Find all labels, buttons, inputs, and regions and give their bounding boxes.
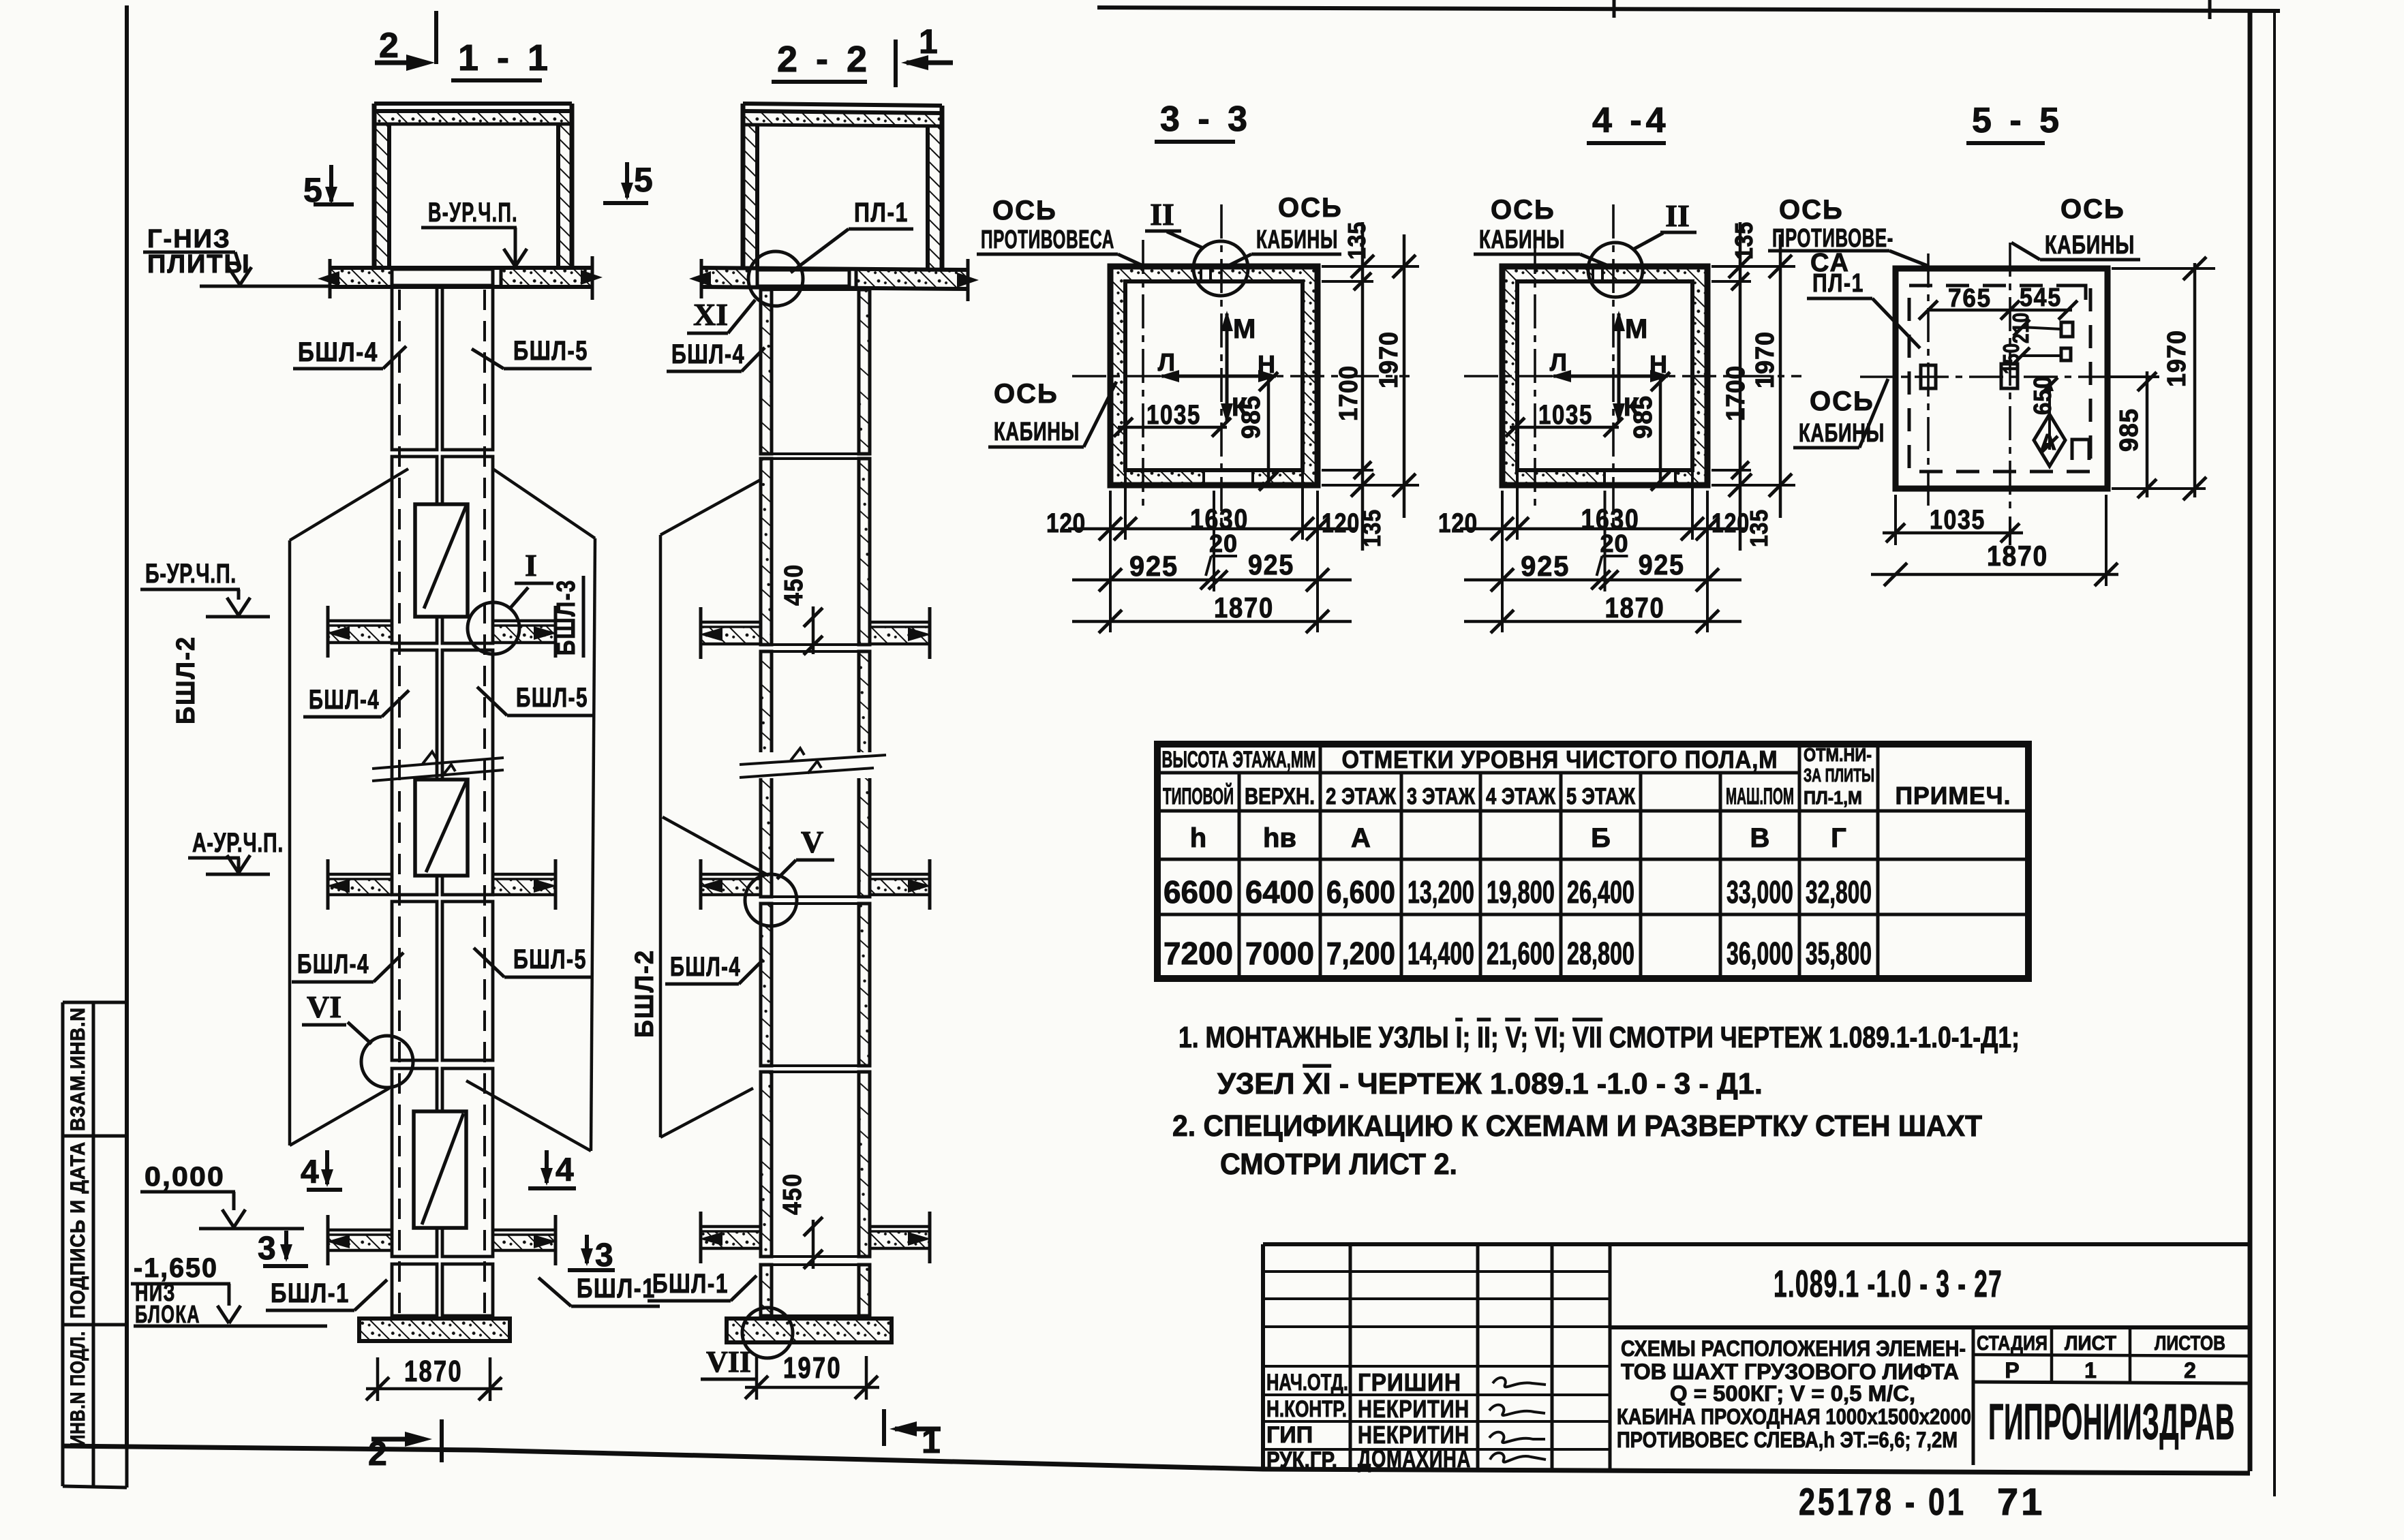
svg-text:985: 985 xyxy=(2115,408,2144,452)
svg-text:ОСЬ: ОСЬ xyxy=(1779,195,1844,225)
plan 5-5 slab outline xyxy=(1896,268,2108,489)
svg-text:БШЛ-2: БШЛ-2 xyxy=(630,949,659,1038)
svg-text:М: М xyxy=(1233,314,1256,344)
svg-text:ОТМ.НИ-: ОТМ.НИ- xyxy=(1804,744,1872,765)
svg-text:1700: 1700 xyxy=(1722,365,1750,421)
title block signatures xyxy=(1493,1378,1546,1387)
section 1-1 cut mark 2 bottom xyxy=(371,1437,424,1442)
svg-text:7,200: 7,200 xyxy=(1326,936,1395,971)
svg-text:V: V xyxy=(801,825,823,859)
svg-text:35,800: 35,800 xyxy=(1806,936,1872,971)
plan 3-3 right dimensions xyxy=(1322,265,1419,268)
section 1-1 floor slab brackets level B xyxy=(328,626,392,643)
node circle VII xyxy=(742,1308,793,1358)
plan 5-5 dashed PL-1 slab xyxy=(1909,286,2090,472)
svg-text:1. МОНТАЖНЫЕ УЗЛЫ I; II; V;: 1. МОНТАЖНЫЕ УЗЛЫ I; II; V; VI; VII СМОТ… xyxy=(1178,1021,2020,1054)
plan 5-5 dim 150 xyxy=(2022,354,2061,357)
svg-text:БЛОКА: БЛОКА xyxy=(135,1300,200,1328)
svg-text:1970: 1970 xyxy=(783,1351,842,1385)
svg-text:7000: 7000 xyxy=(1245,936,1314,971)
svg-text:Н: Н xyxy=(1649,350,1667,378)
svg-text:1970: 1970 xyxy=(1751,331,1780,388)
svg-text:БШЛ-4: БШЛ-4 xyxy=(298,337,378,367)
section 1-1 machine room left wall xyxy=(374,124,389,268)
plan 3-3 bottom dimensions xyxy=(1109,491,1112,632)
title block stage cells xyxy=(1972,1327,1975,1465)
plan 5-5 diamond mark A xyxy=(2034,414,2065,466)
plan 5-5 dim 985 right xyxy=(2108,375,2159,378)
section 2-2 machine room right wall xyxy=(928,126,942,268)
svg-text:ВЫСОТА ЭТАЖА,ММ: ВЫСОТА ЭТАЖА,ММ xyxy=(1162,747,1316,773)
svg-text:Q = 500КГ; V = 0,5 М/С,: Q = 500КГ; V = 0,5 М/С, xyxy=(1670,1381,1915,1406)
dimension 1970 bottom of section 2-2 xyxy=(755,1356,759,1400)
svg-text:5 - 5: 5 - 5 xyxy=(1972,101,2063,140)
sheet frame right border thin outer xyxy=(2273,10,2276,1496)
svg-text:ОТМЕТКИ УРОВНЯ ЧИСТОГО ПОЛА: ОТМЕТКИ УРОВНЯ ЧИСТОГО ПОЛА,М xyxy=(1342,745,1778,773)
section 1-1 development envelope outline xyxy=(290,469,408,540)
svg-text:925: 925 xyxy=(1639,549,1685,581)
svg-text:ЗА ПЛИТЫ: ЗА ПЛИТЫ xyxy=(1804,765,1874,786)
plan 5-5 hole counterweight xyxy=(1921,365,1936,388)
svg-text:ПЛ-1: ПЛ-1 xyxy=(1812,269,1864,298)
svg-text:985: 985 xyxy=(1237,395,1266,439)
svg-text:2: 2 xyxy=(2184,1358,2196,1383)
section 2-2 floor PL-1 panel xyxy=(757,270,849,286)
svg-text:В-УР.Ч.П.: В-УР.Ч.П. xyxy=(428,198,518,228)
svg-text:БШЛ-4: БШЛ-4 xyxy=(671,339,745,369)
svg-text:VII: VII xyxy=(706,1345,751,1379)
svg-text:1: 1 xyxy=(2084,1358,2097,1383)
svg-text:25178 - 01: 25178 - 01 xyxy=(1799,1480,1966,1523)
svg-text:1700: 1700 xyxy=(1335,365,1363,421)
svg-text:120: 120 xyxy=(1711,508,1750,538)
plan 5-5 hole cab xyxy=(2001,364,2018,388)
svg-text:БШЛ-5: БШЛ-5 xyxy=(513,944,587,974)
svg-text:Г: Г xyxy=(1831,823,1846,853)
svg-text:БШЛ-5: БШЛ-5 xyxy=(516,683,588,713)
svg-text:1970: 1970 xyxy=(1375,331,1403,388)
sheet frame bottom border xyxy=(61,1446,2250,1473)
svg-text:71: 71 xyxy=(1997,1480,2045,1523)
plan 3-3 dim 1035 xyxy=(1118,426,1227,429)
svg-text:120: 120 xyxy=(1046,508,1086,538)
svg-text:ЛИСТОВ: ЛИСТОВ xyxy=(2155,1332,2225,1355)
svg-text:3 ЭТАЖ: 3 ЭТАЖ xyxy=(1407,784,1475,810)
section 2-2 machine room left wall xyxy=(743,125,757,268)
section 2-2 floor slab brackets level B xyxy=(701,627,761,644)
svg-text:4 ЭТАЖ: 4 ЭТАЖ xyxy=(1486,784,1555,810)
section 2-2 floor slab brackets level 0 xyxy=(701,1231,761,1248)
svg-text:14,400: 14,400 xyxy=(1408,936,1474,971)
svg-text:КАБИНЫ: КАБИНЫ xyxy=(2045,231,2135,260)
svg-text:БШЛ-5: БШЛ-5 xyxy=(513,336,588,366)
svg-text:2 - 2: 2 - 2 xyxy=(777,39,871,80)
svg-text:ГИП: ГИП xyxy=(1266,1422,1313,1448)
svg-text:1870: 1870 xyxy=(1214,591,1274,623)
svg-text:28,800: 28,800 xyxy=(1567,936,1634,971)
plan 5-5 small hole 1 xyxy=(2061,322,2073,337)
svg-text:НАЧ.ОТД.: НАЧ.ОТД. xyxy=(1266,1370,1348,1396)
svg-text:ПОДПИСЬ И ДАТА: ПОДПИСЬ И ДАТА xyxy=(67,1141,89,1319)
svg-text:СМОТРИ ЛИСТ 2.: СМОТРИ ЛИСТ 2. xyxy=(1220,1148,1457,1181)
section 1-1 shaft left column BShL-4 stack xyxy=(392,286,437,450)
section 1-1 floor slab PL-1 panel xyxy=(392,269,493,286)
svg-text:545: 545 xyxy=(2020,283,2062,312)
svg-text:1870: 1870 xyxy=(404,1355,463,1388)
plan 5-5 corner mark top right xyxy=(2076,286,2086,300)
svg-text:ПРИМЕЧ.: ПРИМЕЧ. xyxy=(1896,782,2011,810)
svg-text:13,200: 13,200 xyxy=(1408,874,1474,910)
svg-text:925: 925 xyxy=(1129,550,1178,582)
title block outline xyxy=(1263,1242,2250,1246)
node circle I xyxy=(468,602,519,654)
section 2-2 shaft walls with joints xyxy=(761,290,772,454)
svg-text:1: 1 xyxy=(919,22,938,61)
svg-text:ТИПОВОЙ: ТИПОВОЙ xyxy=(1163,783,1234,810)
section 1-1 bottom slab xyxy=(359,1319,510,1341)
section 1-1 door opening D3 xyxy=(414,1111,466,1228)
svg-text:1035: 1035 xyxy=(1538,400,1593,430)
svg-text:РУК.ГР.: РУК.ГР. xyxy=(1266,1447,1337,1473)
section 1-1 machine room top slab xyxy=(374,102,572,106)
svg-text:А: А xyxy=(1351,823,1371,853)
svg-text:1870: 1870 xyxy=(1987,540,2048,572)
section 2-2 break lines xyxy=(757,752,877,778)
plan 3-3 counterweight axis xyxy=(1142,240,1144,506)
svg-text:ТОВ ШАХТ ГРУЗОВОГО ЛИФТА: ТОВ ШАХТ ГРУЗОВОГО ЛИФТА xyxy=(1621,1359,1959,1384)
title block row lines left part xyxy=(1263,1270,1610,1273)
svg-text:0,000: 0,000 xyxy=(144,1162,225,1192)
svg-text:1035: 1035 xyxy=(1146,400,1201,430)
svg-text:КАБИНЫ: КАБИНЫ xyxy=(1256,226,1338,254)
section 2-2 cut mark 1 bottom xyxy=(882,1409,886,1446)
svg-text:БШЛ-1: БШЛ-1 xyxy=(271,1278,350,1308)
svg-text:4: 4 xyxy=(301,1154,319,1190)
svg-text:1: 1 xyxy=(922,1422,941,1460)
svg-text:5 ЭТАЖ: 5 ЭТАЖ xyxy=(1566,784,1635,810)
svg-text:XI: XI xyxy=(693,297,728,332)
svg-text:II: II xyxy=(1150,197,1174,232)
svg-text:6400: 6400 xyxy=(1245,874,1314,910)
svg-text:hв: hв xyxy=(1263,823,1296,853)
node circle XI xyxy=(748,251,803,306)
svg-text:450: 450 xyxy=(778,1173,807,1215)
svg-text:В: В xyxy=(1750,823,1770,853)
svg-text:ОСЬ: ОСЬ xyxy=(2060,194,2125,224)
dimension 1870 bottom of section 1-1 xyxy=(376,1357,380,1401)
svg-text:2. СПЕЦИФИКАЦИЮ К СХЕМАМ: 2. СПЕЦИФИКАЦИЮ К СХЕМАМ И РАЗВЕРТКУ СТЕ… xyxy=(1172,1109,1982,1143)
svg-text:VI: VI xyxy=(307,989,341,1024)
plan 4-4 dim 1035 xyxy=(1510,426,1619,429)
svg-text:650: 650 xyxy=(2028,375,2056,415)
svg-text:КАБИНЫ: КАБИНЫ xyxy=(1799,419,1885,448)
svg-text:ПРОТИВОВЕСА: ПРОТИВОВЕСА xyxy=(981,226,1114,254)
svg-text:925: 925 xyxy=(1521,550,1570,582)
svg-text:36,000: 36,000 xyxy=(1726,936,1793,971)
plan 5-5 small hole 2 xyxy=(2061,348,2071,360)
svg-text:3: 3 xyxy=(258,1231,276,1267)
svg-text:Н: Н xyxy=(1258,350,1275,378)
section 1-1 floor slab brackets level 0.000 xyxy=(328,1235,392,1250)
svg-text:135: 135 xyxy=(1343,221,1371,260)
registration tick top right xyxy=(2208,0,2212,19)
svg-text:БШЛ-4: БШЛ-4 xyxy=(670,952,741,982)
svg-text:ОСЬ: ОСЬ xyxy=(1491,195,1555,225)
plan 4-4 shaft walls xyxy=(1502,266,1707,485)
section 1-1 break lines xyxy=(372,758,504,769)
svg-text:135: 135 xyxy=(1745,509,1773,547)
svg-text:ЛИСТ: ЛИСТ xyxy=(2065,1332,2116,1355)
plan 5-5 dim 210 xyxy=(2022,327,2061,329)
svg-text:Л: Л xyxy=(1550,348,1567,376)
svg-text:33,000: 33,000 xyxy=(1726,874,1793,910)
plan 4-4 dim 985 vertical xyxy=(1659,376,1662,485)
registration tick top xyxy=(1613,0,1616,18)
svg-text:Л: Л xyxy=(1158,348,1175,376)
svg-text:БШЛ-2: БШЛ-2 xyxy=(172,636,200,724)
svg-text:5: 5 xyxy=(634,161,653,199)
svg-text:120: 120 xyxy=(1322,508,1360,538)
section 1-1 floor slab brackets level A xyxy=(328,879,392,895)
svg-text:6,600: 6,600 xyxy=(1326,874,1395,910)
plan 5-5 corner mark bottom right xyxy=(2072,440,2089,460)
sheet frame right border thick xyxy=(2248,10,2253,1471)
table grid xyxy=(1157,771,1799,775)
svg-text:ИНВ.N ПОДЛ.: ИНВ.N ПОДЛ. xyxy=(67,1331,89,1447)
svg-text:ОСЬ: ОСЬ xyxy=(994,379,1059,409)
svg-text:450: 450 xyxy=(780,564,808,606)
title block document number xyxy=(1610,1325,2250,1329)
plan 5-5 dim 650 xyxy=(2048,382,2051,450)
plan 5-5 dim 1870 bottom xyxy=(2105,495,2108,586)
sidebar stamp boxes xyxy=(61,1002,65,1486)
svg-text:1870: 1870 xyxy=(1605,591,1665,623)
svg-text:I: I xyxy=(525,548,537,583)
svg-text:7200: 7200 xyxy=(1163,936,1233,971)
svg-text:ДОМАХИНА: ДОМАХИНА xyxy=(1358,1445,1471,1473)
svg-text:СТАДИЯ: СТАДИЯ xyxy=(1977,1332,2048,1355)
svg-text:135: 135 xyxy=(1358,509,1386,547)
svg-text:ОСЬ: ОСЬ xyxy=(1810,386,1874,416)
svg-text:2 ЭТАЖ: 2 ЭТАЖ xyxy=(1326,784,1396,810)
svg-text:4: 4 xyxy=(556,1152,574,1188)
node circle V xyxy=(745,874,797,926)
svg-text:1.089.1 -1.0 - 3 - 27: 1.089.1 -1.0 - 3 - 27 xyxy=(1774,1262,2003,1305)
svg-text:1 - 1: 1 - 1 xyxy=(458,37,552,78)
svg-text:ГРИШИН: ГРИШИН xyxy=(1358,1368,1461,1396)
section 1-1 door opening D1 xyxy=(415,504,468,617)
section 2-2 bottom slab xyxy=(727,1319,892,1342)
sheet frame left border xyxy=(125,5,129,1447)
svg-text:20: 20 xyxy=(1600,529,1628,557)
section 2-2 cut mark 1 top xyxy=(894,40,898,87)
section 2-2 development envelope outline xyxy=(660,480,761,535)
section 1-1 shaft right column BShL-5 stack xyxy=(442,286,493,450)
svg-text:ПРОТИВОВЕС СЛЕВА,h ЭТ.=6,6; 7,: ПРОТИВОВЕС СЛЕВА,h ЭТ.=6,6; 7,2М xyxy=(1617,1428,1958,1452)
plan 3-3 horizontal axis xyxy=(1072,375,1410,378)
svg-text:2: 2 xyxy=(379,26,399,65)
svg-text:УЗЕЛ XI - ЧЕРТЕЖ 1.089.1 -: УЗЕЛ XI - ЧЕРТЕЖ 1.089.1 -1.0 - 3 - Д1. xyxy=(1217,1067,1763,1100)
svg-text:КАБИНЫ: КАБИНЫ xyxy=(1479,226,1565,254)
svg-text:Г-НИЗ: Г-НИЗ xyxy=(147,225,231,253)
svg-text:ГИПРОНИИЗДРАВ: ГИПРОНИИЗДРАВ xyxy=(1988,1393,2235,1450)
plan 5-5 horizontal axis xyxy=(1860,375,2158,378)
section 2-2 machine room floor slab xyxy=(701,268,968,270)
svg-text:Н.КОНТР.: Н.КОНТР. xyxy=(1266,1396,1347,1422)
svg-text:19,800: 19,800 xyxy=(1487,874,1555,910)
svg-text:925: 925 xyxy=(1248,549,1294,581)
svg-text:4 -4: 4 -4 xyxy=(1592,101,1670,140)
plan 5-5 counterweight axis xyxy=(1927,253,1930,507)
node circle VI xyxy=(361,1036,413,1088)
svg-text:БШЛ-4: БШЛ-4 xyxy=(309,685,380,715)
svg-text:1970: 1970 xyxy=(2163,330,2191,387)
svg-text:135: 135 xyxy=(1730,221,1758,260)
svg-text:КАБИНА ПРОХОДНАЯ 1000х1500х200: КАБИНА ПРОХОДНАЯ 1000х1500х2000 xyxy=(1617,1404,1971,1429)
svg-text:БШЛ-1: БШЛ-1 xyxy=(577,1274,656,1304)
section 1-1 machine room floor slab xyxy=(330,266,592,270)
plan 5-5 dim 765 545 xyxy=(1928,309,2072,312)
svg-text:20: 20 xyxy=(1209,529,1238,557)
svg-text:6600: 6600 xyxy=(1163,874,1233,910)
svg-text:БШЛ-1: БШЛ-1 xyxy=(652,1269,729,1299)
svg-text:120: 120 xyxy=(1438,508,1478,538)
plan 3-3 cab axis xyxy=(1220,204,1223,532)
plan 3-3 direction letters xyxy=(1226,313,1229,376)
svg-text:32,800: 32,800 xyxy=(1806,874,1872,910)
section 2-2 floor slab brackets level A xyxy=(701,879,761,895)
svg-text:ВЗАМ.ИНВ.N: ВЗАМ.ИНВ.N xyxy=(67,1007,89,1131)
svg-text:СХЕМЫ РАСПОЛОЖЕНИЯ ЭЛЕМЕН-: СХЕМЫ РАСПОЛОЖЕНИЯ ЭЛЕМЕН- xyxy=(1621,1336,1966,1361)
svg-text:Б: Б xyxy=(1591,823,1611,853)
plan 4-4 right dimensions xyxy=(1711,265,1795,268)
svg-text:НЕКРИТИН: НЕКРИТИН xyxy=(1358,1395,1470,1423)
svg-text:БШЛ-4: БШЛ-4 xyxy=(297,949,369,979)
plan 5-5 dim 1970 right xyxy=(2112,267,2215,270)
plan 5-5 cab axis xyxy=(2009,243,2011,513)
svg-text:II: II xyxy=(1665,198,1690,233)
svg-text:М: М xyxy=(1625,314,1647,344)
plan 3-3 shaft walls xyxy=(1110,266,1318,485)
svg-text:2: 2 xyxy=(368,1434,387,1473)
svg-text:765: 765 xyxy=(1948,284,1992,313)
svg-text:КАБИНЫ: КАБИНЫ xyxy=(994,418,1080,446)
plan 3-3 node circle II xyxy=(1193,241,1248,296)
plan 4-4 bottom dimensions xyxy=(1501,491,1504,632)
svg-text:БШЛ-3: БШЛ-3 xyxy=(552,579,581,656)
plan 4-4 direction letters xyxy=(1617,313,1621,376)
svg-text:ОСЬ: ОСЬ xyxy=(992,196,1057,226)
section 1-1 door opening D2 xyxy=(415,780,468,876)
svg-text:ПЛ-1,М: ПЛ-1,М xyxy=(1804,787,1862,808)
svg-text:ВЕРХН.: ВЕРХН. xyxy=(1245,784,1315,810)
svg-text:МАШ.ПОМ: МАШ.ПОМ xyxy=(1726,784,1794,810)
svg-text:Р: Р xyxy=(2005,1358,2019,1383)
svg-text:h: h xyxy=(1190,823,1206,853)
table outer border xyxy=(1157,744,2028,979)
svg-text:985: 985 xyxy=(1629,395,1658,439)
plan 4-4 horizontal axis xyxy=(1464,375,1801,378)
svg-text:26,400: 26,400 xyxy=(1567,874,1634,910)
plan 4-4 node circle II xyxy=(1588,243,1643,297)
plan 3-3 dim 985 vertical xyxy=(1267,376,1271,485)
svg-text:1035: 1035 xyxy=(1930,505,1985,535)
svg-text:ОСЬ: ОСЬ xyxy=(1278,193,1343,223)
svg-text:21,600: 21,600 xyxy=(1487,936,1555,971)
plan 5-5 dim 1035 bottom xyxy=(1894,495,1897,545)
section 2-2 machine room top slab xyxy=(743,104,942,106)
sheet frame top border xyxy=(1097,7,2280,11)
svg-text:А-УР.Ч.П.: А-УР.Ч.П. xyxy=(192,828,284,858)
section 1-1 hidden dashed lines xyxy=(398,290,401,1315)
svg-text:ПЛ-1: ПЛ-1 xyxy=(854,198,909,228)
plan 4-4 cab axis xyxy=(1612,204,1615,532)
svg-text:Б-УР.Ч.П.: Б-УР.Ч.П. xyxy=(145,559,237,589)
section 1-1 machine room right wall xyxy=(558,124,572,268)
svg-text:3 - 3: 3 - 3 xyxy=(1160,99,1251,139)
plan 4-4 counterweight axis xyxy=(1534,240,1536,506)
